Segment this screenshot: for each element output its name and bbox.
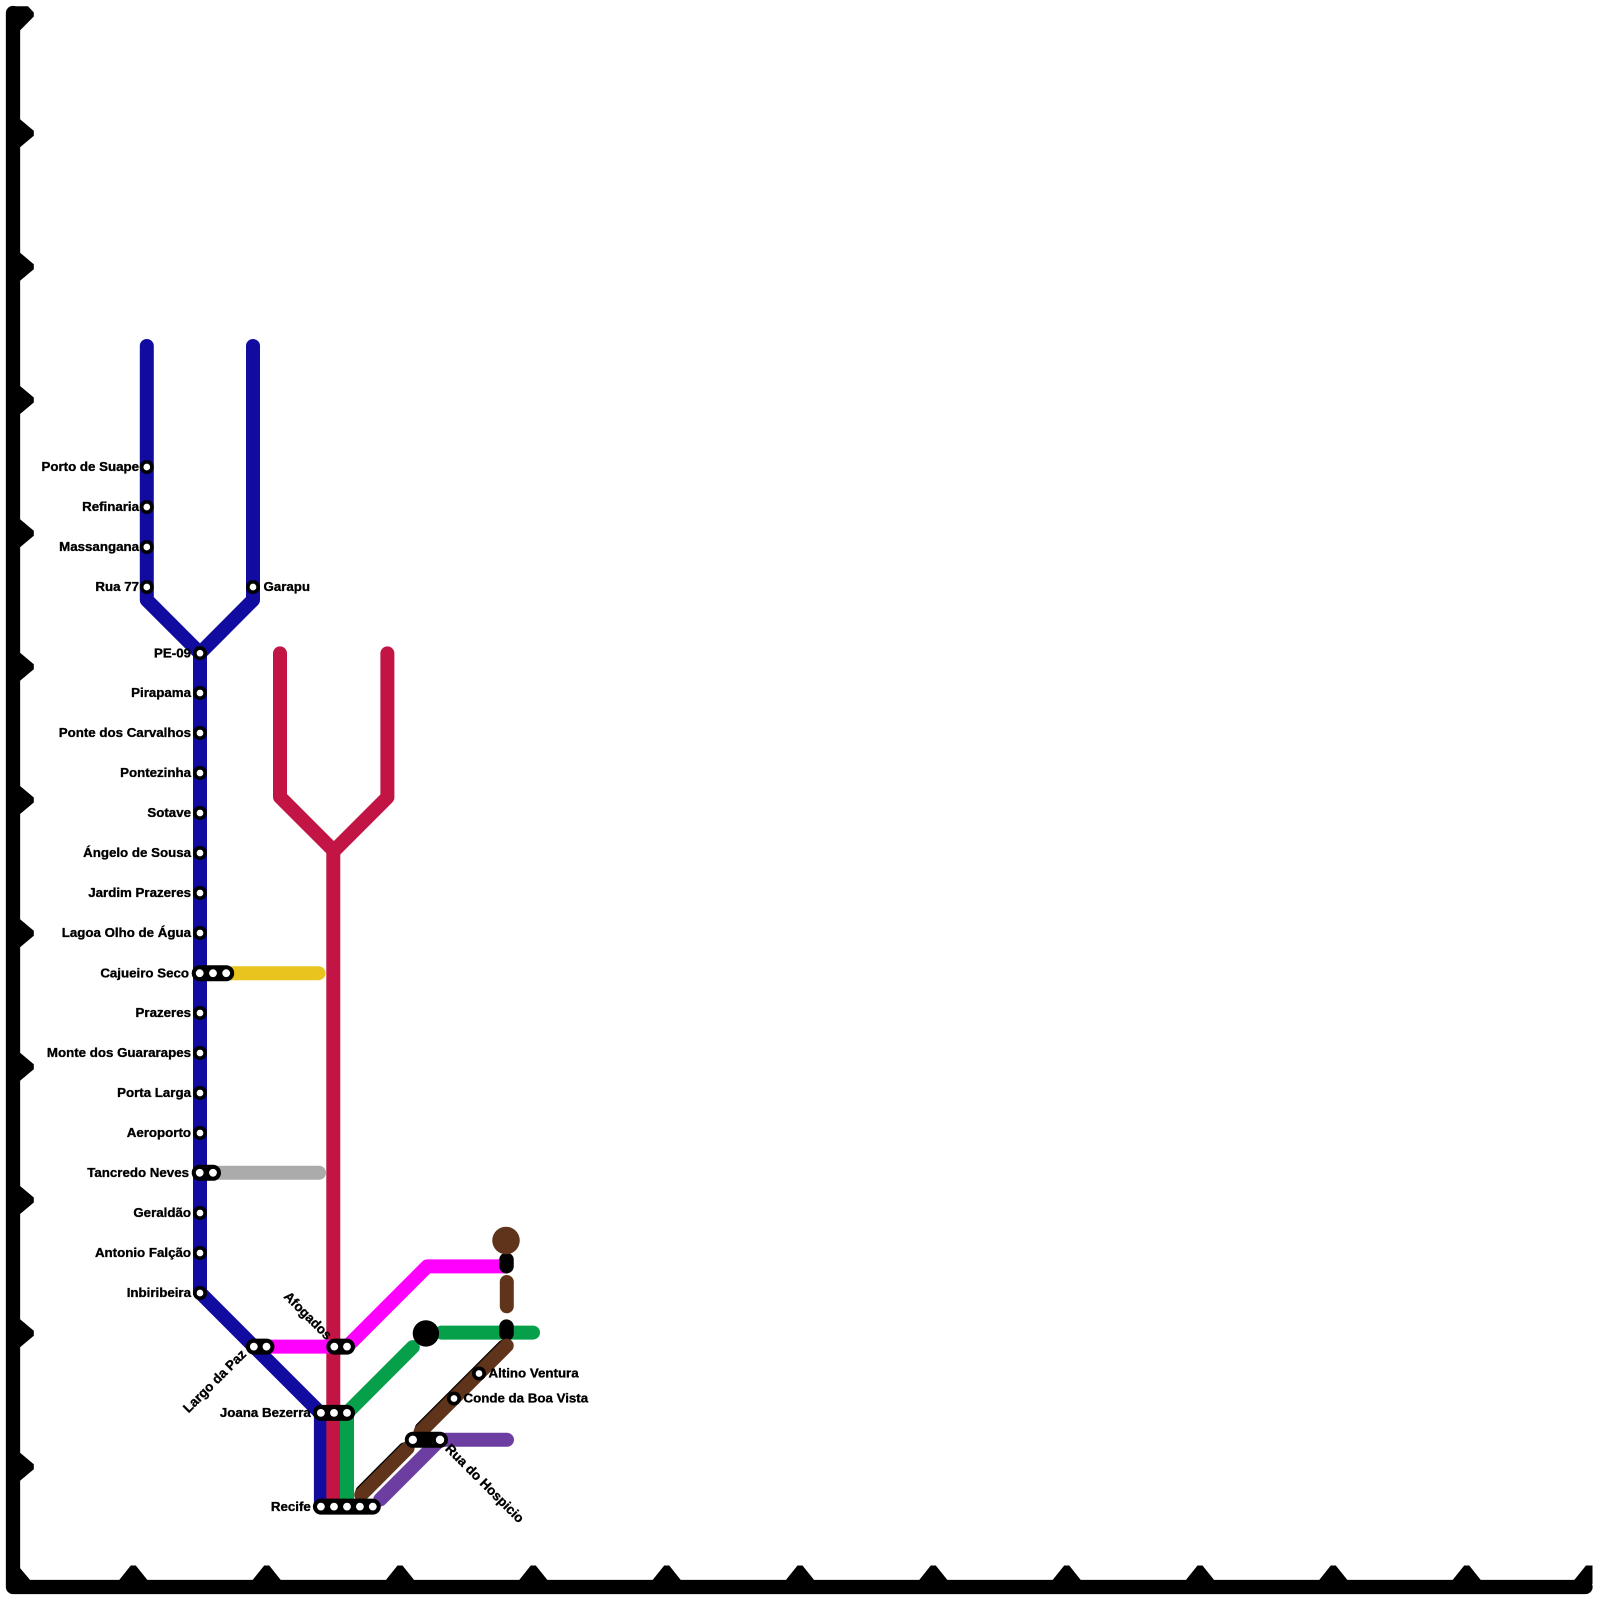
black interchange pill magenta-brown (499, 1260, 514, 1266)
station Inbiribeira (195, 1288, 205, 1298)
brown line vertical segment (500, 1282, 514, 1306)
yellow stub line at Cajueiro Seco (230, 966, 319, 980)
svg-text:Antonio Falção: Antonio Falção (95, 1245, 191, 1260)
interchange capsule Cajueiro Seco (196, 969, 230, 977)
svg-text:Lagoa Olho de Água: Lagoa Olho de Água (62, 925, 192, 940)
station Altino Ventura (474, 1368, 484, 1378)
station Geraldao (195, 1208, 205, 1218)
svg-text:Geraldão: Geraldão (133, 1205, 191, 1220)
svg-text:Pontezinha: Pontezinha (120, 765, 192, 780)
interchange capsule Recife (317, 1503, 377, 1511)
interchange capsule Joana Bezerra (317, 1409, 351, 1417)
border bumps left (13, 6, 34, 1484)
black interchange pill green-brown (499, 1327, 514, 1334)
station Massangana (142, 542, 152, 552)
green line junction dot to east cap (442, 1326, 534, 1340)
station Lagoa Olho de Agua (195, 928, 205, 938)
border bumps bottom (117, 1566, 1483, 1584)
blue line main trunk (200, 653, 321, 1506)
border corner chamfer bottom-left (17, 1565, 31, 1582)
black casing under brown diagonal lower segment (362, 1449, 404, 1491)
svg-text:Monte dos Guararapes: Monte dos Guararapes (47, 1045, 191, 1060)
brown terminus dot (492, 1227, 520, 1255)
svg-text:Joana Bezerra: Joana Bezerra (220, 1405, 312, 1420)
station Pontezinha (195, 768, 205, 778)
station Sotave (195, 808, 205, 818)
svg-text:Ángelo de Sousa: Ángelo de Sousa (83, 845, 191, 860)
svg-text:Altino Ventura: Altino Ventura (489, 1366, 580, 1381)
border end bump bottom-right (1571, 1566, 1593, 1585)
svg-text:Porto de Suape: Porto de Suape (41, 459, 139, 474)
station Monte dos Guararapes (195, 1048, 205, 1058)
station Porta Larga (195, 1088, 205, 1098)
svg-text:Pirapama: Pirapama (131, 685, 191, 700)
svg-text:Inbiribeira: Inbiribeira (127, 1285, 192, 1300)
interchange capsule Afogados (330, 1343, 351, 1351)
blue line branch Porto de Suape (147, 346, 200, 653)
interchange capsule Rua do Hospicio (409, 1436, 445, 1444)
svg-text:Aeroporto: Aeroporto (127, 1125, 191, 1140)
svg-text:Jardim Prazeres: Jardim Prazeres (88, 885, 191, 900)
svg-text:PE-09: PE-09 (154, 645, 191, 660)
svg-text:Prazeres: Prazeres (136, 1005, 191, 1020)
svg-text:Sotave: Sotave (147, 805, 191, 820)
crimson line main trunk (326, 850, 340, 1507)
svg-text:Ponte dos Carvalhos: Ponte dos Carvalhos (59, 725, 191, 740)
station Refinaria (142, 502, 152, 512)
svg-text:Cajueiro Seco: Cajueiro Seco (100, 965, 189, 980)
interchange capsule Tancredo Neves (196, 1169, 217, 1177)
magenta line (267, 1266, 507, 1346)
station Prazeres (195, 1008, 205, 1018)
station Aeroporto (195, 1128, 205, 1138)
station Angelo de Sousa (195, 848, 205, 858)
brown line diagonal upper segment (421, 1346, 507, 1432)
svg-text:Porta Larga: Porta Larga (117, 1085, 191, 1100)
brown line diagonal lower segment to Recife (361, 1448, 407, 1495)
station Porto de Suape (142, 462, 152, 472)
station Garapu (248, 582, 258, 592)
svg-text:Rua 77: Rua 77 (95, 579, 139, 594)
svg-text:Recife: Recife (271, 1499, 311, 1514)
interchange capsule Largo da Paz (250, 1343, 270, 1351)
black junction dot on green line (413, 1320, 439, 1346)
station Conde da Boa Vista (449, 1393, 459, 1403)
svg-text:Conde da Boa Vista: Conde da Boa Vista (464, 1391, 589, 1406)
blue line branch Garapu (200, 346, 253, 653)
svg-text:Tancredo Neves: Tancredo Neves (87, 1165, 189, 1180)
svg-text:Refinaria: Refinaria (82, 499, 140, 514)
station Jardim Prazeres (195, 888, 205, 898)
gray stub line at Tancredo Neves (210, 1166, 319, 1180)
green line Joana Bezerra to junction dot (347, 1347, 413, 1507)
station Ponte dos Carvalhos (195, 728, 205, 738)
crimson line branch left (280, 653, 333, 850)
station PE-09 (195, 648, 205, 658)
station Antonio Falcao (195, 1248, 205, 1258)
purple line (380, 1440, 507, 1500)
station Rua 77 (142, 582, 152, 592)
svg-text:Garapu: Garapu (264, 579, 311, 594)
crimson line branch right (333, 653, 387, 851)
station Pirapama (195, 688, 205, 698)
black casing under brown diagonal upper segment (422, 1347, 504, 1429)
svg-text:Massangana: Massangana (59, 539, 139, 554)
